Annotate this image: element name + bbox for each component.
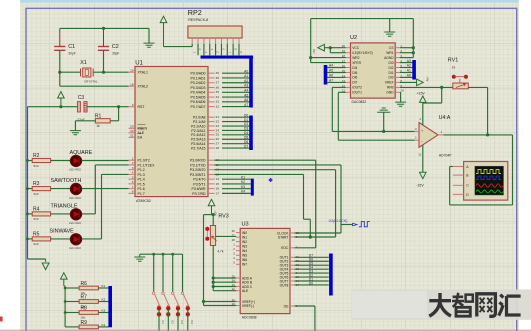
svg-text:A2: A2 xyxy=(407,64,411,68)
bus vertical K1-K4 bottom xyxy=(108,286,112,327)
ground inverted above op-amp + input xyxy=(383,112,385,131)
svg-text:R6: R6 xyxy=(81,281,88,287)
svg-text:U1: U1 xyxy=(135,61,143,67)
capacitor C1 xyxy=(54,46,65,48)
svg-text:P1.1/T2EX: P1.1/T2EX xyxy=(138,163,156,167)
svg-text:10k: 10k xyxy=(81,316,86,320)
svg-text:27: 27 xyxy=(216,142,220,146)
svg-text:K4: K4 xyxy=(102,323,106,327)
svg-text:910: 910 xyxy=(34,217,39,221)
U1 left pins P1.0-P1.7 xyxy=(129,159,136,161)
svg-text:K4: K4 xyxy=(241,190,245,194)
svg-text:32: 32 xyxy=(216,104,220,108)
resistor R8 xyxy=(64,311,67,314)
resistor R7 xyxy=(64,300,67,303)
svg-text:K1: K1 xyxy=(161,321,165,325)
svg-text:A0: A0 xyxy=(244,69,248,73)
led D2 SAWTOOTH xyxy=(70,188,81,190)
svg-text:P1.7: P1.7 xyxy=(138,192,145,196)
svg-text:19: 19 xyxy=(130,68,134,72)
wire P3.0 to U3 EOC xyxy=(215,159,316,161)
svg-text:LED-RED: LED-RED xyxy=(69,246,81,250)
wire RV1 right to output xyxy=(468,86,487,88)
node VCC/ILE junction xyxy=(329,46,332,49)
svg-text:+5V: +5V xyxy=(312,49,316,54)
svg-text:K3: K3 xyxy=(180,321,184,325)
svg-text:P0.7/AD7: P0.7/AD7 xyxy=(191,105,206,109)
svg-text:D0: D0 xyxy=(309,281,313,285)
led D3 TRIANGLE xyxy=(70,213,81,215)
svg-text:P0.1/AD1: P0.1/AD1 xyxy=(191,76,206,80)
svg-text:AT89C52: AT89C52 xyxy=(136,199,151,203)
svg-text:34: 34 xyxy=(216,95,220,99)
svg-text:R5: R5 xyxy=(33,231,40,237)
svg-text:C3: C3 xyxy=(78,95,85,101)
svg-text:P0.4/AD4: P0.4/AD4 xyxy=(191,91,206,95)
switch K3 xyxy=(172,254,174,292)
svg-text:DI6: DI6 xyxy=(352,76,357,80)
svg-text:P0.0/AD0: P0.0/AD0 xyxy=(191,72,206,76)
ground for switches xyxy=(139,254,141,257)
svg-text:D3: D3 xyxy=(244,127,248,131)
svg-text:A5: A5 xyxy=(329,69,333,73)
svg-text:7: 7 xyxy=(132,185,134,189)
wires U2 DI4-DI7 to bus with labels A4-A7 xyxy=(327,67,346,69)
switch K4 xyxy=(182,254,184,292)
node RST/R1 junction xyxy=(117,105,120,108)
svg-text:17: 17 xyxy=(216,191,220,195)
wire R1 to ground xyxy=(75,120,95,122)
svg-text:XTAL2: XTAL2 xyxy=(138,85,148,89)
svg-text:1k: 1k xyxy=(96,124,100,128)
svg-text:K3: K3 xyxy=(241,185,245,189)
svg-text:36: 36 xyxy=(216,85,220,89)
wire U2 GND to ground xyxy=(399,91,402,93)
svg-text:29: 29 xyxy=(130,125,134,129)
svg-text:IN7: IN7 xyxy=(242,263,247,267)
svg-text:DI3: DI3 xyxy=(388,61,393,65)
svg-text:5: 5 xyxy=(132,175,134,179)
svg-text:24: 24 xyxy=(216,128,220,132)
bus vertical left of U2 xyxy=(324,65,328,85)
svg-text:4.7k: 4.7k xyxy=(217,249,223,253)
svg-text:U3(CLOCK): U3(CLOCK) xyxy=(329,219,348,223)
svg-text:31: 31 xyxy=(130,134,134,138)
wire P3.2 to U3 START xyxy=(215,169,336,171)
svg-text:8: 8 xyxy=(132,190,134,194)
wire RV3 wiper to U3 IN1 xyxy=(216,235,236,237)
wire rail to down arrow xyxy=(28,258,46,260)
oscilloscope body xyxy=(464,162,508,201)
node blue diamond marker xyxy=(268,178,273,183)
svg-text:26: 26 xyxy=(216,137,220,141)
svg-text:P1.2: P1.2 xyxy=(138,168,145,172)
ground right of U2 xyxy=(395,102,406,106)
svg-text:IN2: IN2 xyxy=(242,240,247,244)
svg-text:START: START xyxy=(278,235,289,239)
svg-text:WR2: WR2 xyxy=(352,56,359,60)
wire LED3 to P1.1 xyxy=(82,213,96,215)
svg-text:K3: K3 xyxy=(102,309,106,313)
bus horizontal RP2 to P0 xyxy=(201,56,254,59)
svg-text:A5: A5 xyxy=(244,93,248,97)
wire U2 XFER to control rail xyxy=(311,62,346,64)
wire U2 control rail top xyxy=(311,18,414,20)
svg-text:P3.5/T1: P3.5/T1 xyxy=(193,182,205,186)
svg-text:K1: K1 xyxy=(241,175,245,179)
ground hanging from control rail xyxy=(389,19,391,32)
svg-text:D7: D7 xyxy=(244,144,248,148)
svg-text:RP2: RP2 xyxy=(188,8,202,17)
wire U3 OE down xyxy=(295,305,315,307)
resistor R3 xyxy=(28,188,33,190)
watermark text da-zhi-wang-hui xyxy=(429,293,520,317)
resistor R1 xyxy=(95,119,110,123)
svg-text:ALE: ALE xyxy=(242,289,249,293)
wires P2 to data bus with labels D0-D7 xyxy=(222,116,249,118)
watermark band xyxy=(351,289,531,319)
svg-text:IN6: IN6 xyxy=(242,258,247,262)
oscilloscope screen xyxy=(475,166,504,195)
svg-text:30pF: 30pF xyxy=(68,52,75,56)
svg-text:2: 2 xyxy=(132,161,134,165)
svg-text:D0: D0 xyxy=(244,113,248,117)
svg-text:IOUT2: IOUT2 xyxy=(352,86,362,90)
svg-text:910: 910 xyxy=(34,192,39,196)
U2 right pins xyxy=(395,47,400,49)
bus vertical right of U3 xyxy=(329,254,333,296)
U2 left pins xyxy=(346,47,351,49)
bus vertical right of U2 xyxy=(412,60,416,80)
op-amp output stub xyxy=(438,134,444,136)
svg-text:R1: R1 xyxy=(95,114,102,120)
wire LED4 to P1.3 xyxy=(82,238,102,240)
oscilloscope channel pins xyxy=(453,166,464,168)
top blue strip xyxy=(20,0,519,3)
U3 right pins xyxy=(290,232,295,234)
svg-text:RV3: RV3 xyxy=(218,214,228,220)
svg-text:D4: D4 xyxy=(244,131,248,135)
wire op-amp output xyxy=(444,134,513,136)
crystal X1 xyxy=(83,68,91,77)
wire P3.3 to U3 START via jog xyxy=(215,173,304,175)
wires U2 DI0-DI3 to bus with labels A3-A0 xyxy=(400,62,413,64)
svg-text:K2: K2 xyxy=(102,298,106,302)
wire C1 to XTAL2 xyxy=(59,50,61,86)
U3 left pins IN0-IN7 xyxy=(236,232,240,234)
svg-text:VREF: VREF xyxy=(385,81,394,85)
wire RST row right segment xyxy=(87,106,129,108)
svg-text:P2.5/A13: P2.5/A13 xyxy=(191,138,205,142)
power down arrow for LED rail xyxy=(45,259,47,262)
svg-text:11: 11 xyxy=(418,152,421,156)
svg-text:18: 18 xyxy=(130,82,134,86)
svg-text:LED-RED: LED-RED xyxy=(69,196,81,200)
svg-text:A6: A6 xyxy=(244,98,248,102)
svg-text:IN5: IN5 xyxy=(242,254,247,258)
power +5V arrow near C3 xyxy=(58,92,65,98)
svg-text:P3.2/INT0: P3.2/INT0 xyxy=(190,168,206,172)
wires RP2 pins 2-9 to bus xyxy=(197,44,199,55)
svg-text:+15V: +15V xyxy=(417,91,426,95)
svg-text:X1: X1 xyxy=(80,60,87,66)
wire U2 ILE tied to VCC xyxy=(330,52,346,54)
svg-text:33: 33 xyxy=(216,100,220,104)
wire LED2 to P1.6 xyxy=(82,188,129,190)
svg-text:OUT8: OUT8 xyxy=(280,283,289,287)
wires U2 CS WR1 AGND to control rail xyxy=(400,47,414,49)
wire U2 IOUT1 to op-amp - xyxy=(338,91,346,93)
wire U2 RFB to RV1 xyxy=(400,86,454,88)
bus vertical P2 D0-D7 xyxy=(249,116,253,151)
svg-text:TRIANGLE: TRIANGLE xyxy=(51,203,78,209)
switch K1 xyxy=(153,254,155,292)
U3 left pins VREF xyxy=(236,301,240,303)
svg-text:1k: 1k xyxy=(452,66,456,70)
svg-text:VREF(-): VREF(-) xyxy=(242,304,254,308)
U1 left pins XTAL/RST/PSEN/ALE/EA xyxy=(129,71,136,73)
wire U2 WR2 to control rail xyxy=(311,57,346,59)
svg-text:P2.3/A11: P2.3/A11 xyxy=(191,129,205,133)
svg-text:IOUT1: IOUT1 xyxy=(352,91,362,95)
svg-text:DAC0832: DAC0832 xyxy=(352,100,367,104)
U1 right pins P3 port xyxy=(208,159,215,161)
wire U3 EOC row xyxy=(295,247,316,249)
clock generator square-wave symbol xyxy=(353,223,357,226)
oscilloscope trace A square yellow xyxy=(476,170,501,174)
svg-text:4: 4 xyxy=(132,171,134,175)
power +5V arrow left of U2 xyxy=(318,44,325,51)
svg-text:LED-RED: LED-RED xyxy=(69,168,81,172)
wire op-amp V- pin to -15V arrow xyxy=(422,145,424,172)
svg-text:A2: A2 xyxy=(244,79,248,83)
wire RV3 left rail down to VREF xyxy=(203,215,205,306)
svg-text:P3.1/TXD: P3.1/TXD xyxy=(190,163,206,167)
svg-text:RV1: RV1 xyxy=(448,58,458,64)
svg-text:+5V: +5V xyxy=(426,76,430,81)
svg-text:R3: R3 xyxy=(33,181,40,187)
svg-text:CRYSTAL: CRYSTAL xyxy=(84,80,98,84)
svg-text:P2.7/A15: P2.7/A15 xyxy=(191,146,205,150)
wire U3 START row xyxy=(295,236,336,238)
svg-text:IN4: IN4 xyxy=(242,249,247,253)
svg-text:P0.5/AD5: P0.5/AD5 xyxy=(191,95,206,99)
svg-text:DI2: DI2 xyxy=(388,66,393,70)
svg-text:P2.6/A14: P2.6/A14 xyxy=(191,142,205,146)
svg-text:RST: RST xyxy=(138,105,146,109)
svg-text:30pF: 30pF xyxy=(112,52,119,56)
node RST junction at power arrow xyxy=(59,105,62,108)
svg-text:A4: A4 xyxy=(329,64,333,68)
svg-text:XFER: XFER xyxy=(352,61,361,65)
oscilloscope trace D sine green xyxy=(476,190,503,193)
svg-text:6: 6 xyxy=(132,180,134,184)
wire XTAL1 row xyxy=(60,71,81,73)
wire RV3 bottom to address rail xyxy=(212,246,214,291)
power +5V arrow above R6 xyxy=(61,273,68,279)
svg-text:P0.3/AD3: P0.3/AD3 xyxy=(191,86,206,90)
U1 right pins P0 port xyxy=(208,72,215,74)
wire LED supply rail xyxy=(27,107,29,259)
wire RV1 left branch to supply node xyxy=(441,87,443,103)
svg-text:910: 910 xyxy=(34,242,39,246)
svg-text:SAWTOOTH: SAWTOOTH xyxy=(51,178,82,184)
svg-text:DI0: DI0 xyxy=(388,76,393,80)
screen edge artifact bottom-left xyxy=(0,317,3,322)
svg-text:DI1: DI1 xyxy=(388,71,393,75)
wire LED1 to P1.0 xyxy=(82,160,129,162)
svg-text:A6: A6 xyxy=(329,74,333,78)
ground below R1 xyxy=(70,131,81,135)
svg-text:A3: A3 xyxy=(407,59,411,63)
adc U3 ADC0808 body xyxy=(240,228,290,313)
led D1 AQUARE xyxy=(70,160,81,162)
svg-text:3: 3 xyxy=(132,166,134,170)
dac U2 DAC0832 body xyxy=(351,43,396,98)
svg-text:P0.6/AD6: P0.6/AD6 xyxy=(191,100,206,104)
svg-text:P3.7/RD: P3.7/RD xyxy=(192,192,206,196)
svg-text:VCC: VCC xyxy=(352,46,360,50)
svg-text:30: 30 xyxy=(130,129,134,133)
svg-text:CS: CS xyxy=(389,46,394,50)
wire clock generator stub xyxy=(341,224,352,226)
svg-text:1: 1 xyxy=(132,156,134,160)
svg-text:P1.5: P1.5 xyxy=(138,182,145,186)
svg-text:22: 22 xyxy=(216,120,220,124)
power +5V arrow for RP2 pin 1 xyxy=(160,16,167,22)
svg-text:IN3: IN3 xyxy=(242,244,247,248)
wire pullup rail xyxy=(64,286,66,327)
power -15V arrow below op-amp xyxy=(420,172,427,178)
U3 left pins ADD A/B/C ALE xyxy=(236,277,240,279)
wire switch common rail xyxy=(140,253,183,255)
svg-text:P0.2/AD2: P0.2/AD2 xyxy=(191,81,206,85)
resistor R6 xyxy=(64,287,67,290)
svg-text:RESPACK-8: RESPACK-8 xyxy=(188,18,208,22)
svg-text:IN1: IN1 xyxy=(242,235,247,239)
svg-text:P2.0/A8: P2.0/A8 xyxy=(193,116,206,120)
switch K2 xyxy=(162,254,164,292)
svg-text:LED-RED: LED-RED xyxy=(69,221,81,225)
svg-text:OE: OE xyxy=(284,304,290,308)
svg-text:D2: D2 xyxy=(244,122,248,126)
wire U2 IOUT2 to op-amp + xyxy=(332,86,346,88)
wires U3 OUT1-8 to bus with labels D7-D0 xyxy=(295,256,329,258)
wire C1/C2 top rail to ground xyxy=(60,27,149,29)
svg-text:A7: A7 xyxy=(329,79,333,83)
wire P3.1 to U3 CLOCK xyxy=(215,164,342,166)
op-amp input stubs xyxy=(415,130,420,132)
mcu U1 AT89C52 body xyxy=(135,67,208,197)
svg-text:K2: K2 xyxy=(241,180,245,184)
bus vertical P0 A0-A7 xyxy=(249,57,253,108)
op-amp U4:A xyxy=(419,123,438,148)
resistor R9 xyxy=(65,326,79,328)
svg-text:DI7: DI7 xyxy=(352,81,357,85)
svg-text:SINWAVE: SINWAVE xyxy=(50,228,75,234)
power +5V arrow below U1 xyxy=(208,199,215,205)
wire U2 VCC to +5V arrow xyxy=(325,47,346,49)
RP2 pins xyxy=(191,38,193,44)
svg-text:K2: K2 xyxy=(170,321,174,325)
wire RST row left segment xyxy=(28,106,78,108)
svg-text:AGND: AGND xyxy=(384,56,394,60)
wires U3 address pins to rail xyxy=(212,276,215,279)
svg-text:P1.3: P1.3 xyxy=(138,173,145,177)
svg-text:A4: A4 xyxy=(244,88,248,92)
svg-text:D1: D1 xyxy=(244,118,248,122)
svg-text:P2.2/A10: P2.2/A10 xyxy=(191,124,205,128)
svg-text:R8: R8 xyxy=(81,306,88,312)
svg-text:R4: R4 xyxy=(33,206,40,212)
led D4 SINWAVE xyxy=(70,238,81,240)
svg-text:26: 26 xyxy=(232,229,236,233)
svg-text:910: 910 xyxy=(34,164,39,168)
U1 right pins P2 port xyxy=(208,116,215,118)
svg-text:P2.1/A9: P2.1/A9 xyxy=(193,120,206,124)
power +5V arrow right of U2 xyxy=(417,79,424,86)
svg-text:C2: C2 xyxy=(112,44,119,50)
svg-text:P1.6: P1.6 xyxy=(138,187,145,191)
svg-text:28: 28 xyxy=(216,146,220,150)
svg-text:37: 37 xyxy=(216,81,220,85)
svg-text:-: - xyxy=(421,139,423,145)
svg-text:DI5: DI5 xyxy=(352,71,357,75)
svg-text:35: 35 xyxy=(216,90,220,94)
wire U3 CLOCK row xyxy=(295,232,342,234)
svg-text:R7: R7 xyxy=(81,295,88,301)
svg-text:R9: R9 xyxy=(81,320,88,326)
svg-text:P1.4: P1.4 xyxy=(138,178,145,182)
wires P3.4-P3.7 to K bus with labels K1-K4 xyxy=(222,178,251,180)
capacitor C3 xyxy=(78,102,81,112)
svg-text:A0: A0 xyxy=(407,74,411,78)
svg-text:A1: A1 xyxy=(407,69,411,73)
svg-text:-15V: -15V xyxy=(416,183,424,187)
svg-text:ADC0808: ADC0808 xyxy=(242,315,257,319)
wire op-amp V+ pin xyxy=(422,102,424,125)
svg-text:15: 15 xyxy=(216,182,220,186)
svg-text:K4: K4 xyxy=(190,321,194,325)
resistor R4 xyxy=(28,213,33,215)
svg-text:P3.3/INT1: P3.3/INT1 xyxy=(190,173,206,177)
svg-text:A1: A1 xyxy=(244,74,248,78)
svg-text:39: 39 xyxy=(216,71,220,75)
svg-text:GND: GND xyxy=(386,91,394,95)
svg-text:D6: D6 xyxy=(244,140,248,144)
svg-text:XTAL1: XTAL1 xyxy=(138,71,148,75)
svg-text:16: 16 xyxy=(216,187,220,191)
svg-text:+: + xyxy=(421,128,424,133)
capacitor C2 xyxy=(98,46,109,48)
wire RP2 pin1 to power xyxy=(163,23,165,47)
svg-text:C1: C1 xyxy=(68,44,75,50)
svg-text:DI4: DI4 xyxy=(352,66,357,70)
svg-text:U2: U2 xyxy=(350,35,357,41)
node op-amp + ground junction xyxy=(382,130,385,133)
svg-text:EA: EA xyxy=(138,136,143,140)
svg-text:EOC: EOC xyxy=(281,246,289,250)
wire RV3 top to +5V xyxy=(212,215,214,226)
svg-text:AD704P: AD704P xyxy=(439,154,452,158)
svg-text:P2.4/A12: P2.4/A12 xyxy=(191,133,205,137)
svg-text:WR1: WR1 xyxy=(386,51,393,55)
resistor R2 xyxy=(28,160,33,162)
svg-text:38: 38 xyxy=(216,76,220,80)
svg-text:21: 21 xyxy=(216,115,220,119)
svg-text:U4:A: U4:A xyxy=(439,115,451,121)
wire U2 VREF to +5V arrow xyxy=(400,81,417,83)
